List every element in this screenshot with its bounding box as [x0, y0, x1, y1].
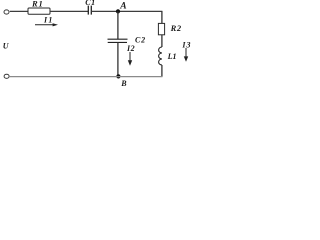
svg-text:L1: L1: [167, 52, 177, 61]
terminal bottom-left: [4, 74, 9, 78]
svg-text:C2: C2: [135, 35, 146, 44]
svg-text:I2: I2: [126, 44, 135, 53]
svg-text:I1: I1: [43, 15, 54, 24]
wire corner down to R2: [161, 11, 163, 23]
terminal top-left: [4, 10, 9, 14]
current arrow I2: [128, 52, 132, 66]
wire C2 down to node B: [117, 42, 119, 76]
wire C1 to corner via node A: [91, 10, 162, 12]
wire L1 down to bottom corner: [161, 65, 163, 77]
svg-text:R2: R2: [170, 23, 182, 33]
node B: [116, 74, 120, 78]
svg-text:A: A: [119, 2, 126, 12]
bottom wire: [10, 76, 163, 78]
wire terminal to R1: [10, 10, 28, 12]
svg-text:C1: C1: [85, 0, 95, 7]
wire node A down to C2: [117, 12, 119, 40]
resistor R2: [158, 23, 164, 34]
capacitor C1: [88, 6, 91, 15]
current arrow I1: [35, 23, 58, 26]
inductor L1: [159, 47, 162, 65]
svg-text:I3: I3: [181, 41, 191, 50]
svg-text:B: B: [120, 79, 127, 88]
wire R2 to L1: [161, 35, 163, 47]
resistor R1: [28, 8, 50, 14]
node A: [116, 9, 120, 13]
svg-text:R1: R1: [31, 0, 44, 9]
capacitor C2: [108, 39, 128, 42]
wire R1 to C1: [50, 10, 88, 12]
current arrow I3: [184, 48, 188, 62]
